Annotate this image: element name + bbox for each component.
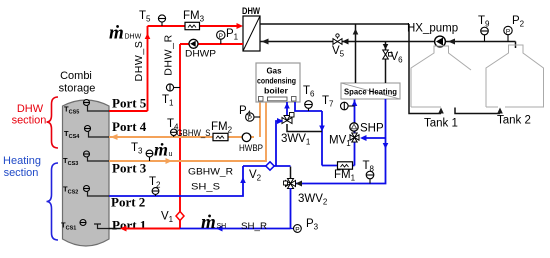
arrow up on DHW_S riser xyxy=(145,33,151,39)
wire boiler left drop xyxy=(259,102,261,137)
sensor TCS2 xyxy=(63,185,109,197)
combi storage tank body xyxy=(63,100,110,246)
wire port2 SH_S blue xyxy=(109,166,243,196)
arrow down on supply drop xyxy=(319,126,325,132)
svg-text:HX_pump: HX_pump xyxy=(407,23,458,35)
svg-text:Tank 1: Tank 1 xyxy=(424,118,458,130)
valve MV1 xyxy=(350,133,359,142)
valve 3WV1 xyxy=(282,113,294,124)
svg-text:P: P xyxy=(219,33,223,40)
wire 3WV2 top stub black xyxy=(290,167,292,180)
arrow down above V6 xyxy=(383,44,389,50)
arrow left after V5 xyxy=(342,39,349,45)
wire boiler supply drop xyxy=(321,111,323,166)
sensor TCS1 xyxy=(61,220,109,232)
sensor TCS5 xyxy=(64,100,109,116)
sensor P2 xyxy=(504,26,512,41)
svg-text:Port 1: Port 1 xyxy=(112,218,146,233)
pump HX_pump xyxy=(435,36,446,47)
svg-text:SH_R: SH_R xyxy=(241,221,267,232)
svg-text:DHW: DHW xyxy=(125,34,142,41)
sensor TCS3 xyxy=(63,151,109,167)
svg-text:Combi: Combi xyxy=(60,70,92,82)
pump HWBP xyxy=(242,133,251,142)
valve V1 diamond xyxy=(176,212,184,221)
arrow up on SH vertical xyxy=(353,29,359,35)
svg-text:condensing: condensing xyxy=(257,76,296,86)
svg-text:Space Heating: Space Heating xyxy=(344,87,397,97)
svg-text:ṁ: ṁ xyxy=(154,140,168,160)
svg-text:ṁ: ṁ xyxy=(201,212,216,233)
svg-text:Port 3: Port 3 xyxy=(112,161,147,176)
svg-text:SH: SH xyxy=(217,223,227,230)
tank 1 outline xyxy=(411,46,471,107)
sensor T2 xyxy=(152,188,159,196)
svg-text:SH_S: SH_S xyxy=(191,182,220,193)
wire port5 red xyxy=(109,110,148,112)
flow meter FM1 xyxy=(338,162,353,169)
wire SH_S upper to 3WV2 xyxy=(243,165,291,167)
gas condensing boiler box xyxy=(256,63,300,102)
arrow right on GBHW_R xyxy=(166,158,173,164)
svg-text:DHWP: DHWP xyxy=(185,49,216,60)
tank 2 outline xyxy=(486,45,544,107)
wire supply to FM1 xyxy=(322,165,355,167)
sensor TCS4 xyxy=(64,126,109,141)
wire MV1 bypass xyxy=(362,137,386,139)
wire DHW return bottom red xyxy=(180,43,243,45)
sensor P3 xyxy=(291,225,302,234)
svg-text:SHP: SHP xyxy=(360,123,384,135)
arrow left after pump xyxy=(448,39,455,45)
arrow left into MV1 xyxy=(360,135,367,141)
sensor T1 xyxy=(166,84,180,91)
sensor T3 xyxy=(146,150,153,161)
wire SH supply riser xyxy=(354,99,356,166)
sensor P4 xyxy=(246,113,260,122)
sensor T8 xyxy=(366,171,374,183)
sensor T9 xyxy=(481,27,489,41)
flow meter FM2 xyxy=(213,133,228,140)
wire boiler return up blue xyxy=(286,102,288,117)
arrow up on SH_S riser xyxy=(240,177,246,183)
sensor P1 xyxy=(217,31,225,44)
pump SHP xyxy=(350,123,358,131)
svg-text:section: section xyxy=(4,167,39,179)
arrow down on SH return drop xyxy=(383,143,389,149)
arrow up into boiler xyxy=(284,103,290,109)
svg-text:HWBP: HWBP xyxy=(239,143,263,154)
wire SH_R xyxy=(180,228,291,230)
sensor T6 xyxy=(305,101,313,111)
wire SH top-left vertical xyxy=(355,24,357,83)
wire boiler supply blue L xyxy=(295,102,322,111)
svg-text:GBHW_S: GBHW_S xyxy=(177,128,211,139)
wire HX secondary bottom black xyxy=(260,41,516,43)
svg-text:GBHW_R: GBHW_R xyxy=(188,167,233,178)
wire DHW_R riser xyxy=(179,44,181,229)
svg-text:storage: storage xyxy=(59,83,96,95)
arrow up into tank1 bottom xyxy=(438,108,444,114)
sensor T5 xyxy=(158,15,165,26)
wire port1 black stub xyxy=(109,228,121,230)
wire DHW supply top xyxy=(148,25,239,27)
valve V5 xyxy=(333,34,342,45)
svg-text:DHW_R: DHW_R xyxy=(163,34,175,76)
wire tank1 to tank2 pipe xyxy=(455,108,500,114)
Heating section brace xyxy=(47,163,59,240)
wire port3 GBHW_R orange xyxy=(109,102,266,161)
svg-text:boiler: boiler xyxy=(264,86,289,96)
svg-text:section: section xyxy=(12,115,47,127)
svg-text:Gas: Gas xyxy=(267,66,282,76)
svg-text:Tank 2: Tank 2 xyxy=(497,115,531,127)
wire 3WV1 bottom black L xyxy=(287,124,322,132)
svg-text:P: P xyxy=(295,226,299,233)
svg-text:u: u xyxy=(169,151,173,158)
arrow left into 3WV2 xyxy=(296,181,303,187)
flow meter FM3 xyxy=(185,22,200,29)
valve V2 diamond xyxy=(266,162,274,170)
wire riser to 3WV1 xyxy=(276,121,282,166)
wire port1 red xyxy=(124,228,180,230)
arrow up into SH box xyxy=(352,100,358,106)
svg-text:P: P xyxy=(506,28,510,35)
valve V6 xyxy=(383,50,392,59)
sensor T7 xyxy=(341,102,355,110)
arrow left into tank port4 xyxy=(111,134,118,140)
wire right corner drop xyxy=(409,24,441,114)
wire V6 vertical xyxy=(385,42,387,84)
arrow left into HX bottom xyxy=(262,39,269,45)
svg-text:Port 5: Port 5 xyxy=(112,96,147,111)
sensor T4 xyxy=(171,129,177,137)
wire port4 GBHW_S orange xyxy=(109,136,254,138)
space heating box xyxy=(341,83,400,99)
wire drop into tank2 neck xyxy=(515,42,517,49)
wire 3WV2 down to SH_R xyxy=(290,188,292,229)
arrow left into tank port1 xyxy=(120,226,127,232)
svg-text:DHW: DHW xyxy=(242,6,260,16)
heat exchanger DHW xyxy=(243,16,260,51)
arrow left on SH_R xyxy=(216,226,223,232)
svg-text:ṁ: ṁ xyxy=(109,23,124,44)
wire DHW_S riser xyxy=(147,26,149,111)
valve 3WV2 xyxy=(284,179,296,189)
svg-text:DHW_S: DHW_S xyxy=(133,41,145,82)
svg-text:Heating: Heating xyxy=(3,155,41,167)
wire SH return drop xyxy=(296,99,386,184)
arrow up into tank2 bottom xyxy=(497,108,503,114)
svg-text:Port 4: Port 4 xyxy=(112,119,147,134)
arrow right into 3WV1 xyxy=(277,118,284,124)
svg-text:DHW: DHW xyxy=(17,103,44,115)
wire HX secondary top black xyxy=(260,23,409,25)
pump DHWP xyxy=(189,39,198,48)
arrow into HX top left xyxy=(237,23,244,29)
DHW section brace xyxy=(47,97,59,148)
